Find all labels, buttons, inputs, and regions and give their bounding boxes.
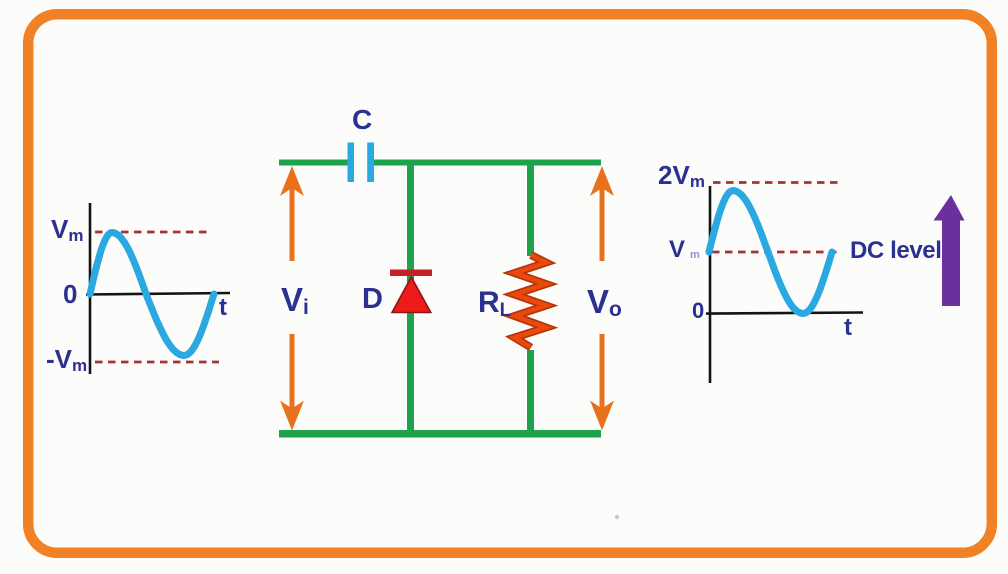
wire: top rail left segment xyxy=(279,160,348,166)
2Vm dashed level line xyxy=(713,181,841,184)
diode D triangle xyxy=(392,277,431,313)
y-axis (left graph) xyxy=(89,203,92,374)
svg-text:DC level: DC level xyxy=(850,237,942,264)
-Vm dashed level line xyxy=(95,361,219,364)
y-axis (right graph) xyxy=(709,186,712,383)
Vo arrow: bottom head xyxy=(590,401,614,431)
wire: bottom rail xyxy=(279,430,601,438)
svg-text:0: 0 xyxy=(63,279,77,309)
Vo arrow: upper shaft xyxy=(600,186,605,261)
svg-text:0: 0 xyxy=(692,298,704,323)
diode D cathode bar xyxy=(390,270,432,277)
Vi arrow: lower shaft xyxy=(290,334,295,412)
svg-text:D: D xyxy=(362,283,383,315)
Vm dashed level line xyxy=(95,231,209,234)
resistor RL zigzag xyxy=(515,255,547,348)
wire: resistor branch top xyxy=(527,160,534,256)
Vo arrow: lower shaft xyxy=(600,334,605,412)
Vo arrow: top head xyxy=(590,166,614,196)
faint speck artifact xyxy=(615,515,619,519)
output sine wave xyxy=(709,191,832,314)
Vi arrow: bottom head xyxy=(280,401,304,431)
input sine wave xyxy=(90,233,214,356)
DC level up arrow xyxy=(934,195,965,306)
Vi arrow: top head xyxy=(280,166,304,196)
Vm dashed level (DC) line xyxy=(712,251,838,254)
svg-text:t: t xyxy=(844,314,852,341)
capacitor C1 plates xyxy=(348,143,355,183)
svg-text:C: C xyxy=(352,104,372,135)
wire: diode branch xyxy=(407,160,414,433)
svg-text:t: t xyxy=(219,294,227,321)
x-axis (right graph) xyxy=(706,313,863,314)
wire: resistor branch bottom xyxy=(527,350,534,433)
Vi arrow: upper shaft xyxy=(290,186,295,261)
wire: top rail right segment xyxy=(374,160,601,166)
x-axis (left graph) xyxy=(86,293,230,295)
